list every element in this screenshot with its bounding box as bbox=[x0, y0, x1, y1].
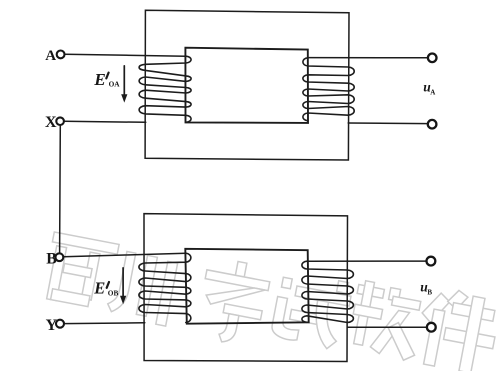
svg-text:OA: OA bbox=[109, 80, 121, 89]
svg-text:B: B bbox=[427, 289, 432, 297]
svg-text:A: A bbox=[45, 48, 56, 64]
svg-text:X: X bbox=[45, 114, 57, 131]
svg-text:E: E bbox=[93, 70, 105, 89]
svg-text:A: A bbox=[430, 89, 435, 97]
svg-text:B: B bbox=[46, 251, 57, 268]
svg-text:E: E bbox=[93, 279, 105, 298]
svg-text:OB: OB bbox=[108, 288, 119, 297]
svg-text:Y: Y bbox=[46, 317, 58, 334]
